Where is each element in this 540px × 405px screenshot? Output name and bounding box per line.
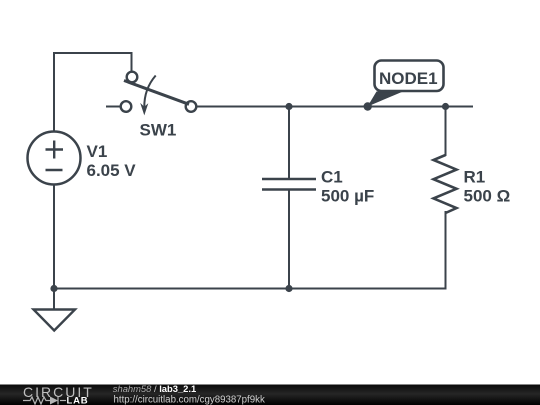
svg-text:SW1: SW1: [140, 121, 177, 140]
junction: top rail / resistor branch: [442, 103, 449, 110]
svg-text:500 Ω: 500 Ω: [464, 187, 511, 206]
junction: top rail / capacitor branch: [285, 103, 292, 110]
svg-text:V1: V1: [87, 142, 108, 161]
wire: left vertical (top rail corner down to V1 top): [53, 52, 55, 133]
footer bar: [0, 385, 540, 405]
footer logo squiggle (resistor + diode): [23, 397, 66, 405]
svg-text:shahm58 / lab3_2.1: shahm58 / lab3_2.1: [113, 383, 196, 394]
label V1 value: [87, 142, 137, 180]
wire: capacitor branch lower: [288, 191, 290, 289]
svg-text:NODE1: NODE1: [379, 69, 438, 88]
wire: resistor branch lower: [445, 211, 447, 289]
svg-text:LAB: LAB: [67, 396, 89, 405]
wire: main top rail: [196, 106, 473, 108]
junction: bottom rail / ground: [50, 285, 57, 292]
wire: switch top terminal drop: [131, 52, 133, 72]
resistor R1: [434, 155, 457, 213]
wire: resistor branch upper: [445, 107, 447, 157]
svg-text:http://circuitlab.com/cgy89387: http://circuitlab.com/cgy89387pf9kk: [114, 394, 265, 405]
voltage source V1: [28, 132, 81, 185]
label C1 value: [321, 168, 374, 206]
svg-text:500 µF: 500 µF: [321, 187, 374, 206]
wire: top-left horizontal segment: [53, 52, 132, 54]
svg-text:C1: C1: [321, 168, 343, 187]
wire: bottom rail: [54, 288, 447, 290]
wire: capacitor branch upper: [288, 107, 290, 179]
node NODE1 flag: [364, 61, 444, 111]
switch SW1: [106, 72, 196, 116]
label R1 value: [464, 168, 511, 206]
wire: ground stub: [53, 289, 55, 310]
svg-text:6.05 V: 6.05 V: [87, 161, 137, 180]
ground symbol: [34, 310, 76, 331]
wire: left vertical (V1 bottom to bottom rail): [53, 185, 55, 289]
capacitor C1: [262, 179, 316, 190]
svg-text:R1: R1: [464, 168, 486, 187]
junction: bottom rail / capacitor branch: [285, 285, 292, 292]
